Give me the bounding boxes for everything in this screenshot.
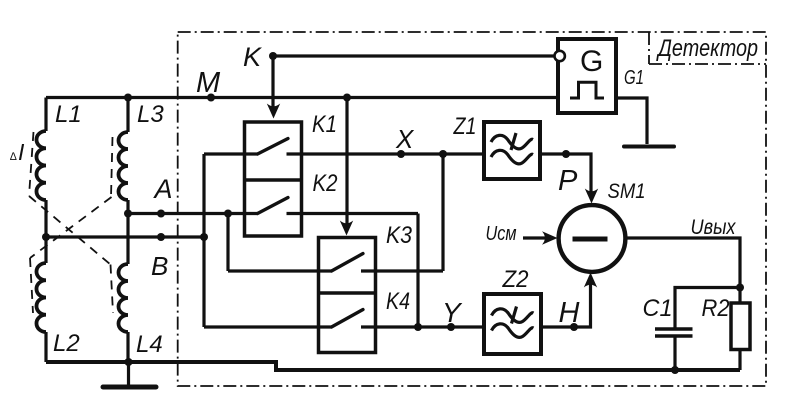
inductor L1 — [36, 131, 46, 200]
wire X horizontal K1 to Z1 — [287, 152, 485, 155]
node dot A-L3L4 junction — [124, 210, 132, 218]
coupling dashed rail L2 — [30, 258, 33, 313]
svg-text:L1: L1 — [55, 101, 82, 128]
svg-text:H: H — [559, 297, 580, 329]
wire K2 to Y vertical — [416, 214, 419, 328]
wire K horizontal — [273, 54, 555, 57]
dash-dot enclosure border — [178, 32, 766, 386]
coupling dashed rail L3 — [111, 137, 113, 197]
node dot A-drop junction — [224, 210, 232, 218]
wire A horizontal — [128, 212, 258, 215]
node A dot — [157, 210, 165, 218]
wire R2 bottom — [738, 350, 741, 371]
switch K1 blade — [258, 139, 289, 155]
wire Z2 output to SM1 — [541, 280, 591, 327]
svg-text:SM1: SM1 — [608, 179, 646, 203]
coupling dashed diagonal L3-L2 — [30, 197, 112, 258]
svg-text:Uвых: Uвых — [691, 216, 737, 239]
svg-text:A: A — [153, 174, 173, 204]
wire M horizontal — [46, 96, 558, 99]
wire A to K3 drop vertical — [226, 214, 229, 272]
svg-text:Uсм: Uсм — [486, 223, 517, 245]
wire K to K1 arrow vertical — [271, 56, 274, 112]
switch K2 blade — [258, 198, 289, 214]
node Y dot — [447, 323, 455, 331]
svg-text:Z2: Z2 — [502, 266, 529, 293]
node dot B-vertical junction — [200, 233, 208, 241]
inductor L2 — [36, 263, 46, 332]
svg-text:M: M — [196, 67, 221, 99]
wire B to K1 left stub — [204, 152, 258, 155]
capacitor C1 — [655, 327, 693, 331]
node H dot — [570, 323, 578, 331]
node K dot — [269, 52, 277, 60]
Детектор label box — [649, 32, 766, 64]
inductor L4 — [119, 264, 129, 332]
svg-text:P: P — [558, 165, 578, 197]
node M dot — [207, 94, 215, 102]
resistor R2 — [731, 303, 750, 350]
ground bar G1 — [624, 145, 674, 149]
coupling dashed rail L1 — [29, 132, 113, 313]
node P dot — [562, 150, 570, 158]
pulse symbol inside G1 — [570, 82, 604, 98]
wire L1 to L2 — [44, 200, 47, 263]
wire A to K3 left stub — [228, 269, 332, 272]
wire B to K4 left stub — [204, 325, 332, 328]
svg-text:X: X — [395, 124, 415, 154]
svg-text:Детектор: Детектор — [656, 35, 758, 62]
svg-text:L3: L3 — [137, 101, 164, 128]
coupling dashed diagonal L1-L4 — [29, 196, 111, 265]
svg-text:Y: Y — [442, 297, 463, 328]
wire Y horizontal K4 to Z2 — [361, 325, 484, 328]
input circle on G1 — [555, 51, 565, 61]
wire Z1 output to SM1 — [540, 154, 591, 196]
svg-text:K4: K4 — [386, 288, 410, 315]
relay contact block K3/K4 — [319, 238, 376, 353]
svg-text:∆: ∆ — [10, 151, 17, 163]
filter Z1 — [484, 122, 540, 179]
svg-text:L4: L4 — [136, 331, 163, 358]
node dot B-left junction — [42, 233, 50, 241]
node X dot — [397, 150, 405, 158]
coupling dashed rail L4 — [111, 265, 114, 314]
node dot C1 bottom — [671, 366, 679, 374]
svg-text:K: K — [243, 42, 262, 72]
inductor L3 — [119, 132, 129, 200]
wire C1 bottom — [673, 338, 676, 371]
svg-text:K2: K2 — [313, 170, 338, 197]
node dot ground junction — [125, 358, 133, 366]
wire L2 bottom — [44, 332, 47, 362]
filter Z2 — [484, 294, 541, 354]
switch K4 blade — [332, 310, 364, 328]
svg-text:B: B — [151, 251, 168, 281]
wire K2 right stub — [287, 212, 419, 215]
wire SM1 output Uвых — [626, 238, 741, 303]
svg-text:C1: C1 — [643, 295, 673, 322]
node dot L3 top — [124, 94, 132, 102]
wire K3 right stub — [361, 269, 443, 272]
switch K3 blade — [332, 254, 364, 272]
mixer SM1 — [559, 205, 626, 272]
node B dot — [157, 233, 165, 241]
wire B horizontal — [46, 235, 204, 238]
node dot K2-Y junction — [414, 323, 422, 331]
bottom common wire — [46, 362, 740, 370]
wire K3 to X vertical — [441, 154, 444, 271]
svg-text:G1: G1 — [624, 67, 644, 89]
wire Uсм arrow into SM1 — [523, 236, 546, 239]
svg-text:R2: R2 — [702, 295, 730, 322]
wire M junction to K3 arrow vertical — [345, 98, 348, 229]
generator G1 block — [558, 39, 616, 113]
svg-text:L2: L2 — [53, 330, 80, 357]
node dot K3-drop junction — [343, 94, 351, 102]
wire C1 branch — [675, 288, 740, 328]
wire L4 bottom — [126, 332, 129, 362]
node dot K3-X junction — [439, 150, 447, 158]
relay contact block K1/K2 — [245, 122, 302, 236]
wire L3 to L4 — [126, 200, 129, 264]
svg-text:Z1: Z1 — [453, 113, 477, 140]
wire G1 output to ground — [616, 98, 647, 144]
ground — [127, 362, 130, 385]
svg-text:I: I — [18, 139, 25, 165]
svg-text:K1: K1 — [312, 111, 337, 138]
inductor L1 column top wire — [44, 98, 47, 132]
node dot C1 branch — [736, 284, 744, 292]
svg-text:K3: K3 — [386, 222, 413, 249]
inductor L3 column top wire — [126, 98, 129, 133]
svg-text:G: G — [580, 45, 603, 78]
wire B to K1 and K4 vertical — [202, 154, 205, 327]
